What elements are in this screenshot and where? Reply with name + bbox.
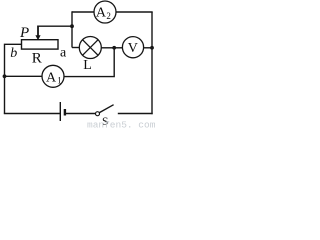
battery long plate (positive) <box>59 102 61 121</box>
wire from rheostat terminal b down the left rail <box>5 44 22 76</box>
wire ammeter A2 to top left corner <box>72 11 94 13</box>
svg-text:A: A <box>46 70 57 85</box>
wiper P arrowhead <box>35 35 40 40</box>
wire node to voltmeter <box>114 47 122 49</box>
wire corner to lamp <box>72 47 80 49</box>
wire right rail <box>151 12 153 114</box>
battery short plate (negative) <box>64 109 66 116</box>
svg-text:1: 1 <box>57 76 62 86</box>
wire switch to bottom right corner <box>118 113 153 115</box>
wire battery to switch <box>65 113 96 115</box>
lamp L cross stroke 2 <box>83 40 99 56</box>
node junction wiper to A2/lamp branch <box>70 24 74 28</box>
svg-text:A: A <box>96 5 107 20</box>
svg-text:L: L <box>83 58 92 73</box>
wire left rail junction to ammeter A1 <box>5 75 43 77</box>
wire voltmeter to right rail <box>144 47 152 49</box>
lamp L cross stroke 1 <box>83 40 99 56</box>
svg-text:P: P <box>19 25 29 41</box>
svg-text:a: a <box>60 45 67 60</box>
switch S pivot <box>96 112 100 116</box>
switch S lever (open) <box>99 105 113 113</box>
node junction on right rail <box>150 46 154 50</box>
wiper P shaft <box>37 26 39 37</box>
wire top right to ammeter A2 <box>116 11 153 13</box>
svg-text:R: R <box>32 50 42 66</box>
wire bottom left to battery <box>4 113 60 115</box>
wire vertical from top corner down to lamp level <box>71 11 73 47</box>
lamp L circle <box>79 37 101 59</box>
wire node down and left to ammeter A1 <box>64 48 114 77</box>
svg-text:2: 2 <box>106 11 111 21</box>
svg-text:manfen5. com: manfen5. com <box>87 119 156 130</box>
voltmeter V <box>122 37 143 58</box>
svg-text:b: b <box>10 46 17 61</box>
resistor R rheostat body <box>22 40 59 49</box>
ammeter A1 <box>42 65 64 87</box>
wire lamp to node <box>101 47 114 49</box>
node junction lamp/voltmeter/A1 <box>112 46 116 50</box>
ammeter A2 <box>94 1 116 23</box>
node junction on left rail <box>3 74 7 78</box>
wire left rail lower segment <box>4 76 6 113</box>
svg-text:V: V <box>128 41 138 56</box>
wire from wiper P to junction <box>38 25 72 27</box>
